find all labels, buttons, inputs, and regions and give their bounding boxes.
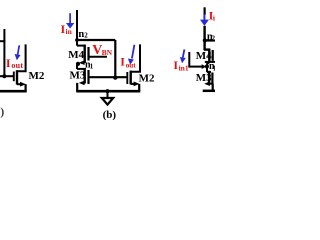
wire : ground rail of (b) bbox=[76, 90, 140, 93]
transistor M4 (b) : drain jog from branch wire bbox=[77, 45, 85, 47]
transistor M2 (b) : gate bar bbox=[126, 72, 128, 84]
current arrow on input branch : blue bbox=[203, 14, 205, 21]
wire : M3 (c) source corner down to rail bbox=[212, 84, 214, 91]
node : n1 dot (c) bbox=[205, 64, 209, 68]
wire : M3 source jog with left arrowhead bbox=[81, 82, 85, 84]
wire : input branch vertical below arrow bbox=[203, 26, 205, 50]
node : junction dot at n2 (c) bbox=[203, 38, 207, 42]
wire : M2 (a) source corner down to ground rail bbox=[25, 84, 27, 91]
svg-text:): ) bbox=[0, 105, 4, 119]
wire : ground rail of (c) cut at right edge bbox=[203, 90, 215, 93]
svg-text:BN: BN bbox=[102, 48, 113, 57]
svg-text:2: 2 bbox=[84, 32, 88, 40]
svg-text:out: out bbox=[126, 62, 137, 70]
wire : drop from rail down to mirror gate wire bbox=[114, 40, 116, 77]
wire : M2 (a) drain jog and drain wire up to output terminal bbox=[17, 44, 26, 71]
wire : gate/drain feed vertical from rail stub down to gate wire bbox=[3, 29, 5, 77]
transistor M2 (a) : channel bar bbox=[16, 70, 18, 84]
transistor M2 (b) : channel bar bbox=[129, 71, 131, 85]
ground symbol (b) bbox=[105, 89, 109, 93]
transistor M3 (c) : gate bar bbox=[211, 73, 213, 85]
svg-text:I: I bbox=[6, 56, 11, 70]
node : junction dot where drop meets gate wire bbox=[113, 75, 117, 79]
wire : M2 (b) drain jog and drain wire up to output terminal bbox=[131, 44, 140, 71]
svg-text:in: in bbox=[66, 27, 73, 36]
wire : M2 (b) source corner down to rail bbox=[138, 84, 140, 91]
wire : M4 source jog with left arrowhead into n1 bbox=[81, 62, 85, 64]
wire : M3 source corner down to ground rail bbox=[76, 83, 78, 91]
svg-text:M2: M2 bbox=[139, 72, 155, 84]
wire : mirror gate wire from M3 gate to M2 gate bbox=[89, 76, 128, 78]
wire : M2 (b) source jog with right arrowhead bbox=[131, 83, 135, 85]
current arrow I_in (b) : blue bbox=[69, 13, 71, 24]
transistor M3 (b) : gate bar bbox=[87, 70, 89, 84]
wire : n1 feed from I_in1 branch with right arrowhead bbox=[189, 66, 203, 68]
svg-text:M3: M3 bbox=[70, 69, 86, 81]
wire : gate wire from left edge to M2 gate bbox=[0, 75, 14, 77]
transistor M3 (c) : drain jog bbox=[207, 71, 211, 73]
wire : rail stub entering from left edge bbox=[0, 40, 5, 42]
wire : M4 (c) gate wire running to cut edge bbox=[205, 61, 215, 63]
wire : ground rail of (a) bbox=[0, 90, 27, 93]
transistor M2 (a) : gate bar bbox=[13, 72, 15, 82]
svg-text:M4: M4 bbox=[68, 49, 84, 61]
svg-text:1: 1 bbox=[90, 62, 94, 70]
transistor M3 (b) : drain jog bbox=[77, 68, 85, 70]
svg-text:M2: M2 bbox=[29, 70, 45, 82]
current arrow I_out (a) : blue bbox=[18, 45, 20, 55]
wire : M3 (c) source jog with left arrowhead bbox=[207, 83, 213, 85]
current arrow I_out (b) : blue bbox=[132, 45, 135, 59]
wire : top rail going right to cut edge bbox=[205, 39, 215, 41]
node : junction dot at n2 bbox=[75, 38, 79, 42]
wire : input branch vertical top segment bbox=[204, 7, 206, 15]
transistor M4 (c) : channel bar bbox=[208, 49, 210, 63]
current arrow I_in1 (c) : blue bbox=[183, 49, 185, 57]
wire : M2 (a) source jog with current arrowhead bbox=[17, 83, 22, 85]
transistor M4 (c) : gate bar bbox=[212, 50, 214, 61]
wire : M4 gate wire to V_BN stub bbox=[89, 56, 108, 58]
wire : input branch vertical of (b) bbox=[76, 10, 78, 46]
transistor M4 (c) : drain jog bbox=[204, 48, 210, 50]
svg-text:in: in bbox=[213, 13, 215, 22]
svg-text:I: I bbox=[120, 55, 125, 69]
node : junction dot on gate wire bbox=[2, 74, 6, 78]
wire : branch between n1 and M3 drain bbox=[76, 64, 78, 69]
transistor M3 (c) : channel bar bbox=[208, 71, 210, 83]
transistor M3 (b) : channel bar bbox=[83, 68, 85, 84]
wire : branch between n1 and M3 (c) bbox=[206, 67, 208, 73]
wire : M4 (c) source down to n1 bbox=[207, 63, 209, 67]
transistor M4 (b) : gate bar bbox=[87, 47, 89, 61]
svg-text:1: 1 bbox=[213, 64, 215, 72]
wire : top rail from n2 to the drop bbox=[76, 39, 115, 41]
svg-text:out: out bbox=[11, 61, 23, 70]
svg-text:(b): (b) bbox=[103, 109, 117, 120]
wire : I_in1 branch vertical bbox=[188, 52, 190, 68]
svg-text:in1: in1 bbox=[179, 63, 189, 72]
node : n1 dot on branch wire bbox=[76, 62, 80, 66]
transistor M4 (b) : channel bar bbox=[83, 45, 85, 64]
